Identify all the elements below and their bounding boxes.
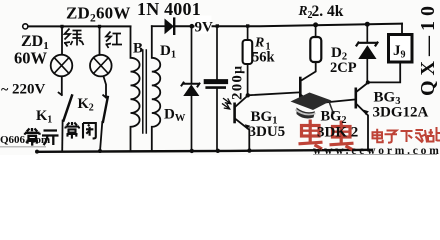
wire green lamp to K1 contact xyxy=(59,76,62,95)
terminal (AC input bottom) xyxy=(35,150,39,154)
wire top rail right section (+9V) xyxy=(174,24,402,27)
svg-text:www.eeworm.com: www.eeworm.com xyxy=(313,145,440,155)
relay J9 coil box xyxy=(389,35,413,63)
node Dw tap xyxy=(190,24,195,29)
svg-text:3DK 2: 3DK 2 xyxy=(317,125,358,141)
svg-text:QX—10: QX—10 xyxy=(417,1,439,96)
watermark graduation cap xyxy=(291,93,335,119)
resistor R1 bottom lead xyxy=(247,64,249,95)
wire relay bottom to BG3 collector node xyxy=(368,62,400,82)
transformer core xyxy=(143,50,147,133)
node Dw bottom rail junction xyxy=(190,149,194,153)
node BG1 collector junction xyxy=(246,93,250,97)
svg-text:2. 4k: 2. 4k xyxy=(312,3,344,20)
svg-text:2CP: 2CP xyxy=(330,60,357,76)
lamp ZD1 green xyxy=(51,55,73,77)
resistor R2 bottom lead xyxy=(302,62,316,80)
svg-text:Q606. com: Q606. com xyxy=(0,134,50,146)
zener diode Dw xyxy=(182,26,200,151)
node K2-rail junction xyxy=(98,149,102,153)
transistor BG1 3DU5 phototransistor xyxy=(235,96,250,151)
wire BG1 collector to BG2 base xyxy=(248,92,299,95)
svg-text:B: B xyxy=(133,41,143,57)
terminal (AC input top) xyxy=(23,24,28,29)
node BG3 collector junction xyxy=(366,80,370,84)
watermark red site text dianzi xiazai zhan xyxy=(373,127,440,143)
label green lamp (Chinese) xyxy=(64,29,84,47)
svg-text:~ 220V: ~ 220V xyxy=(1,82,46,98)
switch K2 arm (normally closed) xyxy=(103,97,108,122)
wire drop to red lamp xyxy=(99,26,101,54)
watermark underlines grey xyxy=(0,146,46,148)
svg-text:1N 4001: 1N 4001 xyxy=(137,0,201,19)
wire drop to green lamp xyxy=(61,26,63,54)
label 9V gap white backing xyxy=(195,16,212,34)
label K1 chang-kai (Chinese normally open) xyxy=(25,128,59,146)
wire K2 to bottom rail xyxy=(100,122,102,151)
capacitor C 200u top lead xyxy=(216,26,218,79)
diode D1 1N4001 xyxy=(165,19,174,34)
node R2 tap xyxy=(313,22,318,27)
wire top rail left section xyxy=(28,25,130,27)
diode D2 2CP (zener) lead xyxy=(366,24,368,82)
lamp ZD2 red xyxy=(90,55,112,77)
label red lamp (Chinese) xyxy=(106,32,123,49)
svg-text:3DG12A: 3DG12A xyxy=(373,105,429,121)
transformer B secondary winding xyxy=(152,26,160,151)
transistor BG2 3DK2 xyxy=(300,78,354,106)
light arrows into BG1 xyxy=(223,99,231,110)
wire K1 to bottom rail xyxy=(61,121,63,152)
transistor BG3 3DG12A xyxy=(356,83,368,151)
svg-text:R: R xyxy=(298,3,308,18)
svg-text:9V: 9V xyxy=(195,20,214,36)
diode D2 2CP symbol xyxy=(357,43,378,59)
node D2 tap xyxy=(365,22,370,27)
node BG1 emitter rail junction xyxy=(247,148,251,152)
node capacitor bottom rail junction xyxy=(216,149,220,153)
capacitor C 200u bottom lead xyxy=(216,89,218,151)
switch K1 arm (normally open) xyxy=(64,96,73,121)
transformer B primary winding xyxy=(131,26,140,151)
node lamp taps and R taps xyxy=(60,24,249,28)
svg-text:3DU5: 3DU5 xyxy=(249,124,286,140)
capacitor C 200u plates xyxy=(206,79,225,84)
watermark chongchong red characters xyxy=(299,120,354,151)
svg-text:R: R xyxy=(254,36,264,51)
svg-text:60W: 60W xyxy=(14,49,48,68)
resistor R1 top lead xyxy=(247,26,249,40)
wire red lamp to K2 contact xyxy=(103,76,106,97)
wire secondary top to D1 anode xyxy=(152,25,165,27)
resistor R1 body xyxy=(243,40,253,64)
resistor R2 top lead xyxy=(315,25,317,37)
label K2 chang-bi (Chinese normally closed) xyxy=(66,122,96,139)
svg-text:56k: 56k xyxy=(252,50,276,66)
svg-text:ZD260W: ZD260W xyxy=(66,4,131,25)
svg-text:200μ: 200μ xyxy=(230,65,246,100)
resistor R2 body xyxy=(310,37,321,62)
wire rail corner into relay top xyxy=(401,24,403,35)
wire bottom rail xyxy=(40,150,372,152)
